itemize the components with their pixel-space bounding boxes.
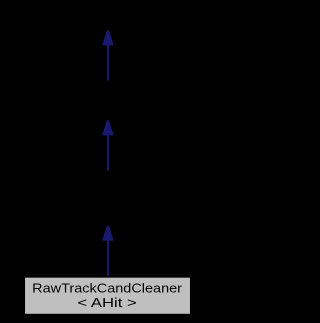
inheritance arrow 1 (top): [102, 30, 114, 80]
svg-text:RawTrackCandCleaner: RawTrackCandCleaner: [32, 280, 183, 295]
inheritance arrow 2 (middle): [102, 120, 114, 170]
class box RawTrackCandCleaner< AHit >: [24, 277, 191, 315]
svg-text:< AHit >: < AHit >: [77, 295, 136, 310]
inheritance arrow 3 (bottom, into class box): [102, 226, 114, 277]
